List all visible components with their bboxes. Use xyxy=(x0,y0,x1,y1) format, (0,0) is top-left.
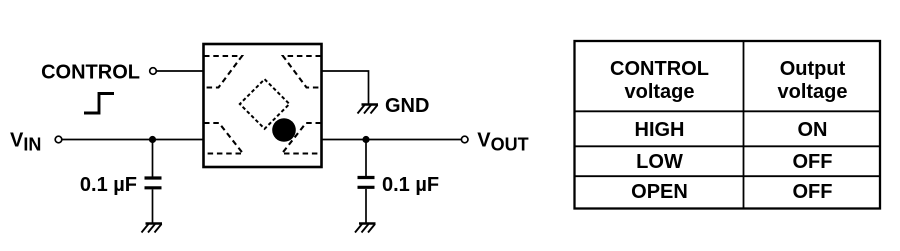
wire: control terminal to IC xyxy=(156,70,203,72)
truth table: row divider 1 xyxy=(575,145,881,147)
truth table: column divider xyxy=(743,41,745,209)
wire: VIN terminal to IC xyxy=(62,139,204,141)
svg-text:ON: ON xyxy=(798,119,828,141)
ground (output capacitor) xyxy=(355,224,376,233)
svg-text:CONTROL: CONTROL xyxy=(610,58,709,80)
svg-text:CONTROL: CONTROL xyxy=(41,62,140,84)
switch symbol chevron top-right (dashed) xyxy=(283,56,321,88)
ground (GND pin) xyxy=(358,105,379,114)
node: output junction xyxy=(362,136,369,143)
svg-text:GND: GND xyxy=(385,95,429,117)
wire: IC GND pin to ground xyxy=(322,71,369,104)
IC box U1 (load switch outline) xyxy=(204,44,322,167)
svg-text:OFF: OFF xyxy=(793,181,833,203)
svg-text:LOW: LOW xyxy=(636,151,683,173)
svg-text:Output: Output xyxy=(780,58,846,80)
wire: IC VOUT pin to output terminal xyxy=(322,139,462,141)
truth table: outer border xyxy=(575,41,881,209)
step waveform symbol xyxy=(84,94,114,114)
switch symbol ball (solid dot) xyxy=(272,118,296,142)
svg-text:voltage: voltage xyxy=(624,81,694,103)
ground (input capacitor) xyxy=(142,224,163,233)
node: input junction xyxy=(149,136,156,143)
svg-text:0.1 µF: 0.1 µF xyxy=(80,174,137,196)
VIN input terminal xyxy=(55,136,62,143)
truth table: header bottom line xyxy=(575,110,881,112)
switch symbol chevron top-left (dashed) xyxy=(204,56,242,88)
svg-text:0.1 µF: 0.1 µF xyxy=(382,174,439,196)
svg-text:voltage: voltage xyxy=(777,81,847,103)
VOUT output terminal xyxy=(461,136,468,143)
svg-text:HIGH: HIGH xyxy=(635,119,685,141)
svg-text:OFF: OFF xyxy=(793,151,833,173)
truth table: row divider 2 xyxy=(575,175,881,177)
switch symbol diamond (dashed) xyxy=(240,79,290,129)
control input terminal xyxy=(150,68,157,75)
switch symbol chevron bottom-right (dashed) xyxy=(282,123,321,154)
wire: output junction down to C2 xyxy=(365,140,367,177)
wire: C2 to ground xyxy=(365,189,367,223)
capacitor C1 0.1uF (input) xyxy=(145,176,162,179)
wire: C1 to ground xyxy=(152,189,154,223)
capacitor C2 0.1uF (output) xyxy=(358,176,375,179)
wire: input junction down to C1 xyxy=(152,140,154,177)
switch symbol chevron bottom-left (dashed) xyxy=(204,123,243,154)
svg-text:OPEN: OPEN xyxy=(631,181,688,203)
